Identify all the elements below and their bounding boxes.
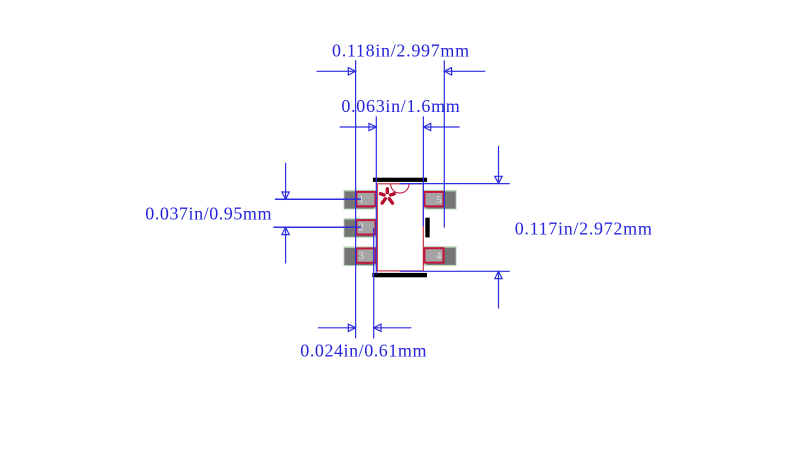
extension line at x=444.3 (dim 0.118 right) [443, 60, 445, 227]
pad 5 (red outline, gray fill) [424, 192, 443, 206]
pad 1 copper (dark gray) [344, 191, 373, 208]
pad 1 solder-mask green fringe [344, 190, 377, 210]
dim 0.024 right arrow line [374, 327, 412, 329]
svg-text:3: 3 [359, 251, 364, 262]
pad 4 (red outline, gray fill) [424, 248, 443, 262]
dim 0.063 left arrow line [340, 126, 377, 128]
dim 0.037 top leader [275, 198, 361, 200]
extension line at x=423.4 (dim 0.063 right) [422, 116, 424, 226]
svg-text:4: 4 [436, 251, 442, 262]
dim 0.117 top line [400, 183, 510, 185]
pad 2 solder-mask green fringe [344, 218, 377, 238]
silkscreen bottom bar [372, 273, 427, 277]
svg-text:5: 5 [437, 195, 442, 206]
pad 3 (red outline, gray fill) [356, 248, 375, 262]
dim 0.037 vertical arrow lines [285, 163, 287, 200]
dim 0.117 bottom line [400, 270, 510, 272]
dim 0.117 vertical arrow lines [498, 146, 500, 184]
pad 1 (red outline, gray fill) [356, 192, 375, 206]
dim 0.037 bottom leader [273, 226, 361, 228]
pad 5 solder-mask green fringe [424, 190, 457, 210]
pad 3 solder-mask green fringe [344, 246, 377, 266]
silkscreen right bar [425, 218, 429, 238]
svg-text:0.118in/2.997mm: 0.118in/2.997mm [332, 41, 470, 61]
svg-text:0.024in/0.61mm: 0.024in/0.61mm [300, 341, 427, 361]
extension line at x=373.7 (dim 0.024 right) [373, 228, 375, 338]
dim 0.118 right arrow line [444, 70, 485, 72]
dim 0.118 left arrow line [317, 70, 356, 72]
svg-text:2: 2 [359, 223, 364, 234]
pad 4 solder-mask green fringe [424, 246, 457, 266]
pin-1 asterisk [380, 189, 394, 203]
component body outline [377, 184, 423, 271]
dim 0.024 left arrow line [318, 327, 356, 329]
silkscreen top bar [373, 178, 427, 182]
pad 2 (red outline, gray fill) [356, 220, 375, 234]
blue dimension graphics [273, 60, 509, 338]
extension line at x=355.6 (dim 0.118/0.024 left) [355, 60, 357, 338]
pad 5 copper (dark gray) [426, 191, 455, 208]
svg-text:0.037in/0.95mm: 0.037in/0.95mm [145, 204, 272, 224]
svg-text:0.117in/2.972mm: 0.117in/2.972mm [515, 219, 653, 239]
pad 3 copper (dark gray) [344, 248, 373, 265]
pin-1 indicator arc [391, 184, 410, 193]
dim 0.063 right arrow line [423, 126, 459, 128]
pad 2 copper (dark gray) [344, 220, 373, 237]
svg-text:0.063in/1.6mm: 0.063in/1.6mm [341, 96, 460, 116]
extension line at x=376.3 (dim 0.063 left) [375, 116, 377, 274]
pad 4 copper (dark gray) [426, 248, 455, 265]
